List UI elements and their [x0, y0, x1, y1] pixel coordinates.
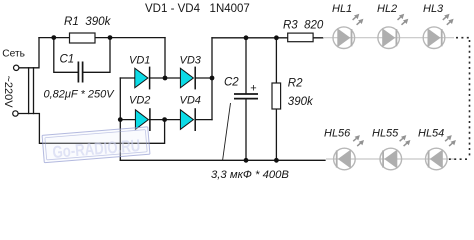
svg-text:VD1: VD1	[129, 55, 150, 67]
svg-text:R2: R2	[288, 78, 303, 90]
wire: bottom rail	[120, 159, 325, 161]
LED HL54	[426, 135, 456, 170]
resistor R1	[70, 33, 96, 43]
svg-text:HL2: HL2	[377, 3, 397, 15]
svg-text:VD4: VD4	[180, 95, 201, 107]
svg-text:390k: 390k	[288, 96, 314, 108]
LED wires (gray)	[323, 37, 454, 39]
svg-text:HL54: HL54	[418, 128, 444, 140]
node: VD3 cathode / plus	[210, 76, 215, 81]
resistor R3	[288, 33, 313, 42]
wire: C1 right branch	[83, 38, 110, 73]
wire: top rail left	[39, 37, 165, 39]
svg-text:~220V: ~220V	[2, 75, 14, 108]
svg-text:VD1 - VD4 1N4007: VD1 - VD4 1N4007	[145, 3, 250, 15]
node B': VD2/VD4 junction	[162, 117, 167, 122]
diode VD1	[135, 67, 150, 90]
diode VD4	[180, 108, 195, 131]
LED HL3	[423, 14, 453, 49]
C2 leader line	[223, 103, 231, 161]
node B: VD1/VD3 junction	[163, 76, 168, 81]
wire: C1 left branch	[54, 38, 78, 73]
svg-text:VD3: VD3	[180, 55, 202, 67]
node: R2 top	[274, 35, 279, 40]
plug pin left	[28, 68, 30, 114]
node: rail/C1 left	[51, 35, 56, 40]
svg-text:HL56: HL56	[324, 128, 351, 140]
svg-text:C1: C1	[60, 53, 75, 65]
terminal: mains bottom	[13, 111, 18, 116]
wire: rail down to bridge node B	[164, 38, 166, 78]
watermark Go-Radio.ru	[42, 127, 150, 163]
LED HL2	[378, 14, 408, 49]
wire: bottom mains terminal to bridge	[18, 114, 165, 144]
node: C2 bottom	[244, 158, 249, 163]
resistor R2	[272, 83, 281, 109]
wire: top diode row	[120, 77, 212, 79]
capacitor C1 plates	[78, 62, 82, 83]
svg-text:VD2: VD2	[129, 95, 150, 107]
LED HL55	[380, 135, 410, 170]
wire: bottom diode row	[120, 119, 212, 121]
svg-text:+: +	[250, 83, 256, 95]
svg-text:R1 390k: R1 390k	[64, 15, 112, 28]
svg-text:C2: C2	[224, 77, 239, 89]
diode VD3	[180, 67, 195, 90]
node: R2 bottom	[274, 158, 279, 163]
capacitor C2 plates	[234, 94, 258, 99]
wire: bridge plus vertical	[211, 38, 213, 120]
node: C2 top	[244, 35, 249, 40]
wire: bridge minus vertical	[119, 78, 121, 160]
node: rail/C1 right	[108, 35, 113, 40]
svg-text:HL1: HL1	[332, 3, 352, 15]
node A': VD2 anode	[118, 117, 123, 122]
diode VD2	[135, 108, 150, 131]
wire: C2 branch	[245, 38, 247, 161]
terminal: mains top	[14, 65, 19, 70]
svg-text:0,82μF * 250V: 0,82μF * 250V	[44, 88, 116, 100]
wire: top mains terminal to rail	[19, 38, 39, 68]
svg-text:R3 820: R3 820	[283, 19, 324, 31]
LED HL56	[334, 135, 364, 170]
wire: top right rail	[212, 37, 323, 39]
plug pin right	[33, 68, 35, 114]
svg-text:HL55: HL55	[372, 128, 399, 140]
svg-text:HL3: HL3	[423, 3, 444, 15]
wire: dashed continuation	[449, 38, 470, 160]
LED HL1	[333, 14, 363, 49]
svg-text:Сеть: Сеть	[2, 48, 25, 59]
svg-text:3,3 мкФ * 400В: 3,3 мкФ * 400В	[211, 169, 289, 181]
wire: R2 branch	[275, 38, 277, 161]
